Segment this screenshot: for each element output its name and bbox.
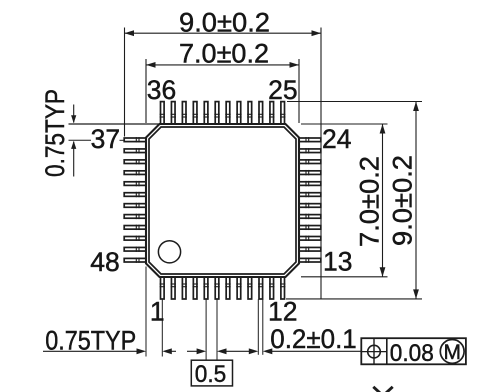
package body outline (7.0 x 7.0 chamfered square) xyxy=(146,124,299,277)
svg-text:0.75TYP: 0.75TYP xyxy=(45,325,136,355)
pin 1 index circle xyxy=(158,241,180,263)
pin 28 xyxy=(247,102,252,125)
0.5 dimension value box xyxy=(191,360,232,386)
pin 12 xyxy=(280,277,285,299)
pin 45 xyxy=(124,225,146,230)
pin 27 xyxy=(258,102,263,125)
pin 43 xyxy=(124,203,146,208)
pin 8 xyxy=(236,277,241,299)
pin 39 xyxy=(124,159,146,164)
pin 18 xyxy=(299,203,321,208)
pin 44 xyxy=(124,214,146,219)
position tolerance symbol xyxy=(361,338,387,364)
svg-text:9.0±0.2: 9.0±0.2 xyxy=(179,7,270,37)
pin 37 xyxy=(124,137,146,142)
pin 29 xyxy=(236,102,241,125)
pin 47 xyxy=(124,247,146,252)
svg-text:M: M xyxy=(443,341,461,364)
svg-text:24: 24 xyxy=(322,124,351,154)
pin 10 xyxy=(258,277,263,299)
dimension 7.0±0.2 (right, body height) xyxy=(301,124,388,277)
svg-text:25: 25 xyxy=(268,75,297,105)
pin 14 xyxy=(299,247,321,252)
pin 3 xyxy=(181,277,186,299)
svg-text:9.0±0.2: 9.0±0.2 xyxy=(388,155,418,246)
pin 17 xyxy=(299,214,321,219)
pin 7 xyxy=(225,277,230,299)
pin 1 xyxy=(160,277,165,299)
pin 23 xyxy=(299,148,321,153)
pin 41 xyxy=(124,181,146,186)
pin 6 xyxy=(214,277,219,299)
pin 35 xyxy=(171,102,176,125)
pin 26 xyxy=(269,102,274,125)
pin 22 xyxy=(299,159,321,164)
pin 4 xyxy=(192,277,197,299)
svg-text:1: 1 xyxy=(150,296,165,326)
pin 25 xyxy=(280,102,285,125)
svg-text:48: 48 xyxy=(90,247,119,277)
dimension 9.0±0.2 (top, overall width) xyxy=(125,7,322,299)
svg-text:0.75TYP: 0.75TYP xyxy=(40,89,70,177)
feature control frame box xyxy=(361,338,466,364)
pin 30 xyxy=(225,102,230,125)
pin 21 xyxy=(299,170,321,175)
pin 16 xyxy=(299,225,321,230)
svg-text:0.08: 0.08 xyxy=(390,340,434,367)
pin 32 xyxy=(203,102,208,125)
svg-text:37: 37 xyxy=(91,124,120,154)
pin 33 xyxy=(192,102,197,125)
svg-text:0.2±0.1: 0.2±0.1 xyxy=(270,324,357,354)
frame cell divider xyxy=(386,338,388,364)
pin 9 xyxy=(247,277,252,299)
pin 48 xyxy=(124,258,146,263)
pin 19 xyxy=(299,192,321,197)
dimension 0.5 (lead pitch) xyxy=(187,299,258,360)
dimension 0.2±0.1 (lead width) xyxy=(258,299,361,355)
svg-text:36: 36 xyxy=(147,75,176,105)
dimension 7.0±0.2 (top, body width) xyxy=(146,39,299,124)
pin 11 xyxy=(269,277,274,299)
svg-text:13: 13 xyxy=(323,246,352,276)
svg-text:7.0±0.2: 7.0±0.2 xyxy=(355,156,385,247)
dimension 0.75TYP (left, corner to pin 37) xyxy=(40,89,160,177)
package body inner edge line xyxy=(149,127,296,274)
pin 42 xyxy=(124,192,146,197)
dimension 0.75TYP (bottom, corner to pin 1) xyxy=(43,267,176,357)
pin 36 xyxy=(160,102,165,125)
pin 34 xyxy=(181,102,186,125)
svg-text:7.0±0.2: 7.0±0.2 xyxy=(179,39,269,69)
pin 15 xyxy=(299,236,321,241)
pin 46 xyxy=(124,236,146,241)
pin 24 xyxy=(299,137,321,142)
pin 2 xyxy=(171,277,176,299)
pin 38 xyxy=(124,148,146,153)
svg-text:0.5: 0.5 xyxy=(195,361,227,388)
pin 40 xyxy=(124,170,146,175)
partial section arrow mark (cut off at bottom edge) xyxy=(373,387,392,392)
dimension 9.0±0.2 (right, overall height) xyxy=(286,102,422,299)
MMC modifier symbol (M in circle) xyxy=(440,340,464,364)
pin 20 xyxy=(299,181,321,186)
pin 13 xyxy=(299,258,321,263)
pin 31 xyxy=(214,102,219,125)
svg-text:12: 12 xyxy=(268,297,297,327)
pin 5 xyxy=(203,277,208,299)
